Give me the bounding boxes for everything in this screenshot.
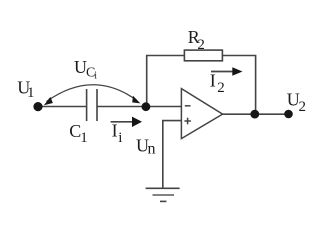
svg-text:1: 1	[80, 130, 88, 146]
svg-text:i: i	[94, 70, 97, 81]
svg-text:2: 2	[299, 99, 307, 115]
svg-text:i: i	[118, 130, 122, 146]
svg-text:I: I	[112, 121, 118, 141]
svg-text:2: 2	[197, 37, 205, 53]
svg-text:1: 1	[27, 85, 35, 101]
svg-text:2: 2	[217, 80, 225, 96]
svg-text:n: n	[148, 140, 156, 157]
svg-text:I: I	[210, 71, 216, 91]
